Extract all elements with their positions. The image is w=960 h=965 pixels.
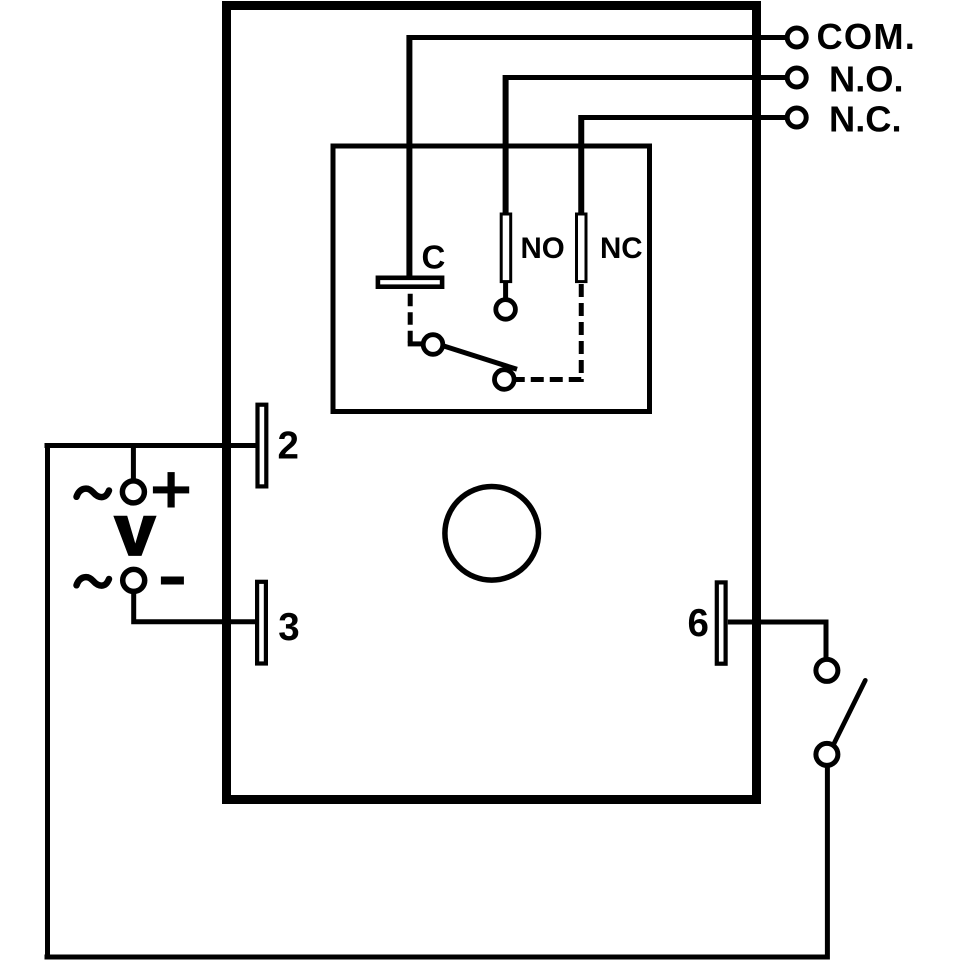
pole circle below NO [496, 300, 516, 320]
inner relay box [333, 146, 650, 412]
wire left outer vertical [45, 443, 50, 957]
svg-text:6: 6 [688, 602, 709, 645]
wire left supply top [45, 443, 256, 448]
svg-text:2: 2 [278, 425, 299, 468]
wire NO vertical [503, 75, 509, 215]
wire from minus down [134, 592, 256, 622]
svg-text:C: C [422, 239, 446, 276]
wire bottom run [45, 955, 828, 960]
wire bar6 to switch [728, 622, 826, 658]
terminal bar 6 [717, 582, 726, 663]
pivot stub wire [408, 341, 423, 346]
tilde upper [77, 489, 110, 498]
wire NC vertical [578, 115, 584, 215]
wire COM horizontal [407, 35, 790, 40]
minus sign [161, 577, 184, 585]
svg-text:N.O.: N.O. [829, 59, 904, 100]
supply circle minus [123, 569, 145, 591]
wire right riser to switch [825, 766, 830, 960]
wire branch to plus terminal [131, 446, 136, 480]
dashed link from armature tip to NC contact [516, 284, 582, 380]
svg-text:NC: NC [600, 232, 643, 265]
terminal circle N.C. [787, 108, 806, 127]
armature lever [443, 346, 517, 370]
contact NO [501, 214, 511, 282]
terminal circle COM [787, 28, 806, 47]
contact NC [577, 214, 587, 282]
outer device box [227, 6, 757, 800]
wire N.C. horizontal [579, 115, 790, 120]
svg-text:COM.: COM. [817, 16, 917, 57]
terminal bar 2 [258, 405, 267, 487]
switch upper circle [816, 659, 838, 681]
svg-text:N.C.: N.C. [829, 99, 902, 140]
terminal circle N.O. [787, 68, 806, 87]
switch lower circle [816, 743, 838, 765]
capacitor-style contact C [378, 278, 442, 287]
timer dial circle [445, 487, 539, 581]
label V [113, 516, 156, 556]
plus sign [153, 486, 189, 493]
armature pivot circle [423, 335, 443, 355]
svg-text:3: 3 [278, 606, 299, 649]
wire N.O. horizontal [503, 75, 790, 80]
armature tip circle [495, 370, 515, 390]
switch lever [834, 680, 865, 743]
dashed link from C bar to armature pivot [408, 294, 413, 343]
wire C vertical [406, 35, 412, 276]
svg-text:NO: NO [521, 232, 565, 265]
terminal bar 3 [257, 582, 266, 664]
supply circle plus [122, 481, 144, 503]
wire NO contact to pole circle [503, 283, 508, 300]
tilde lower [77, 577, 110, 586]
